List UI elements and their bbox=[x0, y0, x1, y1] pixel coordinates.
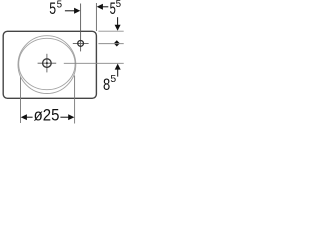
right dimension diamond arrowheads bbox=[114, 40, 120, 46]
tap hole vertical centerline / extension line bbox=[80, 4, 82, 52]
top dimension left arrow bbox=[97, 4, 103, 10]
svg-text:5: 5 bbox=[57, 0, 63, 10]
drain circle bbox=[43, 59, 52, 68]
bottom dimension right arrow bbox=[60, 116, 68, 118]
bowl inner circle bbox=[19, 38, 75, 89]
tap hole horizontal centerline bbox=[73, 42, 89, 44]
right edge extension line bbox=[95, 3, 97, 31]
drain center dot bbox=[46, 62, 48, 64]
right dimension level line middle bbox=[98, 43, 123, 45]
svg-text:8: 8 bbox=[103, 76, 110, 94]
bottom dimension extension line left bbox=[20, 77, 22, 123]
svg-text:5: 5 bbox=[116, 0, 122, 10]
right dimension up arrow bbox=[115, 64, 121, 70]
washbasin outline rounded rectangle bbox=[3, 31, 96, 98]
bottom dimension extension line right bbox=[74, 76, 76, 124]
horizontal centerline through bowl bbox=[38, 62, 57, 64]
tap hole circle bbox=[78, 41, 84, 47]
svg-text:5: 5 bbox=[110, 74, 116, 85]
svg-text:ø25: ø25 bbox=[34, 107, 60, 125]
bowl outer circle bbox=[18, 36, 76, 94]
top dimension right arrow bbox=[65, 10, 75, 12]
drain vertical centerline bbox=[46, 54, 48, 73]
right dimension level line top bbox=[98, 30, 123, 32]
svg-text:5: 5 bbox=[49, 0, 56, 18]
right dimension down arrow bbox=[117, 17, 119, 25]
bottom dimension left arrow bbox=[21, 114, 27, 120]
